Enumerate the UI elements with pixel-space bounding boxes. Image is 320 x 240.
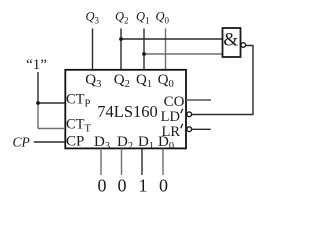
junction on "1" wire bbox=[36, 101, 40, 105]
pin LD' bubble bbox=[187, 112, 192, 117]
svg-text:LD: LD bbox=[161, 109, 180, 125]
wire to CTP bbox=[38, 102, 65, 104]
wire D3 input bbox=[100, 149, 102, 176]
wire Q1 output bbox=[143, 29, 145, 71]
wire Q1 to gate input bbox=[144, 53, 223, 55]
junction Q2 bbox=[119, 37, 123, 41]
wire gate output to LD input bbox=[192, 46, 253, 115]
svg-text:LR: LR bbox=[161, 124, 180, 140]
svg-text:“1”: “1” bbox=[26, 57, 47, 73]
AND gate U1 output bubble bbox=[241, 43, 246, 48]
wire Q0 output bbox=[165, 29, 167, 71]
wire Q3 output bbox=[92, 29, 94, 71]
pin LR' bubble bbox=[187, 127, 192, 132]
svg-text:CP: CP bbox=[13, 135, 30, 150]
wire LR' output bbox=[192, 128, 211, 130]
wire Q2 to gate input bbox=[121, 38, 223, 40]
wire D0 input bbox=[162, 149, 164, 176]
AND gate U1 body bbox=[223, 28, 241, 57]
wire CP input bbox=[34, 141, 65, 143]
svg-text:74LS160: 74LS160 bbox=[97, 102, 158, 121]
svg-text:&: & bbox=[223, 30, 238, 51]
wire from "1" down bbox=[37, 72, 39, 103]
wire to CTT bbox=[38, 128, 65, 130]
wire CO output bbox=[186, 99, 211, 101]
IC U2 74LS160 body bbox=[65, 70, 186, 149]
svg-text:CO: CO bbox=[164, 94, 185, 110]
svg-text:1: 1 bbox=[139, 176, 148, 196]
svg-text:0: 0 bbox=[159, 176, 168, 196]
junction Q1 bbox=[142, 52, 146, 56]
svg-text:CP: CP bbox=[66, 134, 84, 150]
wire D1 input bbox=[141, 149, 143, 176]
svg-text:0: 0 bbox=[118, 176, 127, 196]
svg-text:0: 0 bbox=[98, 176, 107, 196]
wire Q2 output bbox=[120, 29, 122, 71]
wire D2 input bbox=[121, 149, 123, 176]
